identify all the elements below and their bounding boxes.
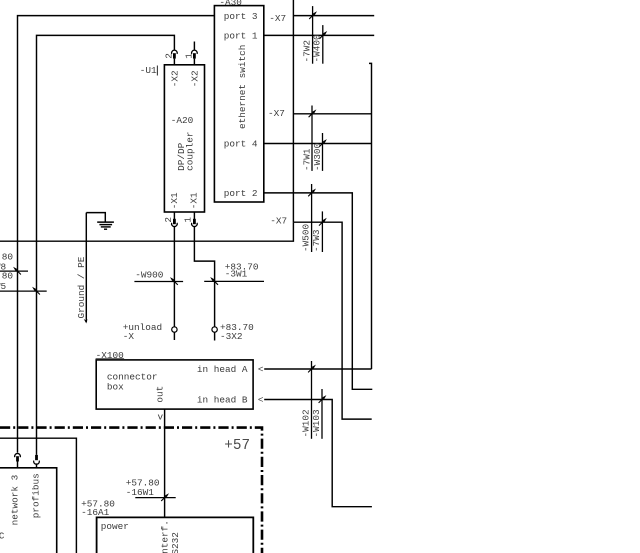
wire X1:1 down with jog to terminal -3X2 (194, 227, 214, 327)
wire X7 row3 (293, 113, 371, 115)
svg-text:1: 1 (183, 217, 194, 223)
-X7 rail vertical (292, 0, 294, 222)
connector box -X100 (96, 360, 253, 409)
vertical trunk wire right (369, 63, 372, 369)
svg-text:-16W1: -16W1 (126, 487, 155, 498)
wire X7 row4 with corner down (293, 222, 371, 419)
wire port3 left segment (18, 16, 215, 453)
svg-text:-W102: -W102 (300, 409, 311, 437)
connector pin profibus (x=36.5) (34, 455, 40, 468)
cable -7W3 line (321, 211, 323, 252)
label -X100 underlined (96, 350, 125, 361)
svg-text:-A20: -A20 (171, 115, 194, 126)
wire port3 right segment (293, 15, 374, 17)
power box (97, 517, 254, 553)
PLC box top (0, 468, 57, 553)
cable end arrow at left wire 1 (0, 270, 28, 272)
wire X1:2 down to terminal -X (173, 227, 175, 327)
svg-text:v: v (158, 411, 164, 422)
svg-text:W5: W5 (0, 281, 7, 292)
terminal circle -3X2 (212, 327, 217, 332)
wire port2 with corner down (264, 193, 373, 389)
dash-dot area border +57 (0, 428, 262, 553)
svg-text:box: box (107, 382, 124, 393)
cable -7W1 arrow (309, 109, 317, 117)
cable -3W1 arrow (210, 277, 218, 285)
svg-text:-X7: -X7 (269, 13, 286, 24)
wire port1 right segment (264, 34, 374, 36)
arrow on left cable 1 (13, 267, 21, 275)
cable -W300 line (322, 133, 324, 171)
cable -W500 line (311, 184, 313, 252)
svg-text:-16A1: -16A1 (81, 507, 110, 518)
svg-text:-W103: -W103 (311, 409, 322, 438)
svg-text:-X2: -X2 (189, 70, 200, 87)
wire port1 left segment to X2 pin 2 (37, 35, 175, 455)
svg-text:in head A: in head A (197, 364, 248, 375)
cable -W900 line (134, 281, 183, 283)
svg-text:2: 2 (163, 217, 174, 223)
cable -7W2 arrow (309, 11, 317, 19)
wire in head B with corners (264, 400, 372, 507)
ethernet switch U=-A30 box (214, 6, 263, 202)
wire stub below -3X2 (214, 332, 216, 340)
svg-text:-3W1: -3W1 (225, 268, 248, 279)
cable -W500 arrow (308, 189, 316, 197)
svg-text:1: 1 (183, 53, 194, 59)
svg-text:-3X2: -3X2 (220, 331, 243, 342)
cable -W102 line (311, 361, 313, 439)
svg-text:-A30: -A30 (219, 0, 242, 8)
connector pin X2:2 (top of coupler) (172, 50, 178, 65)
connector pin network (x=17.5) (15, 453, 21, 467)
svg-text:-X1: -X1 (169, 192, 180, 209)
svg-text:power: power (101, 521, 129, 532)
svg-text:+57: +57 (224, 438, 250, 454)
wire stub below -X (173, 332, 175, 340)
svg-text:RS232: RS232 (170, 532, 181, 553)
svg-text:port 2: port 2 (224, 188, 258, 199)
terminal circle -X (172, 327, 177, 332)
svg-text:port 1: port 1 (224, 31, 258, 42)
arrow on left cable 2 (32, 287, 40, 295)
svg-text:-X7: -X7 (268, 108, 285, 119)
svg-text:ethernet switch: ethernet switch (237, 45, 248, 129)
cable -16W1 arrow (161, 493, 169, 501)
wire in head A (264, 368, 371, 370)
label -U1 with cursor (140, 65, 158, 76)
svg-text:out: out (155, 386, 166, 403)
cable -W900 arrow (170, 277, 178, 285)
svg-text:port 4: port 4 (224, 139, 258, 150)
wire port4 (264, 143, 372, 145)
svg-text:<: < (258, 364, 264, 375)
PE rail arrow end (84, 319, 88, 324)
svg-text:-X: -X (123, 331, 135, 342)
svg-text:-W300: -W300 (312, 142, 323, 171)
wire left bottom horizontal (0, 438, 76, 553)
cable -16W1 line (135, 497, 175, 499)
cable -W103 arrow (319, 395, 327, 403)
svg-text:network 3: network 3 (10, 474, 21, 525)
connector pin X1:2 (bottom of coupler) (172, 212, 178, 227)
ground symbol (86, 213, 114, 230)
out wire down (164, 409, 166, 517)
svg-text:-X1: -X1 (188, 192, 199, 209)
svg-text:-W900: -W900 (135, 270, 164, 281)
connector pin X2:1 (top of coupler) with stub (192, 42, 198, 65)
cable -7W1 line (311, 106, 313, 171)
svg-text:Ground / PE: Ground / PE (76, 256, 87, 318)
svg-text:-7W1: -7W1 (301, 148, 312, 171)
svg-text:-X2: -X2 (169, 70, 180, 87)
cable -3W1 line (204, 280, 264, 282)
DP/DP coupler -A20 box (164, 65, 204, 212)
svg-text:-W500: -W500 (300, 223, 311, 252)
cable -W102 arrow (308, 365, 316, 373)
cable -W300 arrow (319, 139, 327, 147)
svg-text:-U1: -U1 (140, 65, 157, 76)
svg-text:coupler: coupler (185, 132, 196, 171)
svg-text:<: < (258, 394, 264, 405)
Ground / PE rail wire (85, 213, 87, 322)
svg-text:port 3: port 3 (224, 11, 258, 22)
svg-text:profibus: profibus (30, 473, 41, 518)
cable -7W2 line (312, 6, 314, 64)
cable -W400 arrow (319, 31, 327, 39)
svg-text:PLC: PLC (0, 531, 5, 542)
svg-text:-W400: -W400 (312, 34, 323, 63)
cable -W400 line (322, 25, 324, 64)
svg-text:in head B: in head B (197, 394, 248, 405)
connector pin X1:1 (bottom of coupler) (192, 212, 198, 227)
cable -W103 line (321, 389, 323, 439)
svg-text:2: 2 (164, 53, 175, 59)
cable end arrow at left wire 2 (0, 290, 47, 292)
svg-text:-X7: -X7 (270, 215, 287, 226)
svg-text:-7W3: -7W3 (311, 229, 322, 252)
PE horizontal rail (0, 222, 293, 241)
cable -7W3 arrow (319, 218, 327, 226)
